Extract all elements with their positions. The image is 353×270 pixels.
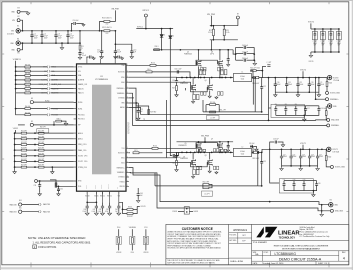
diode D2 [169, 29, 171, 36]
svg-text:VDD25: VDD25 [94, 196, 99, 198]
wire rs2opt tap [257, 152, 259, 186]
VOUT1 bus [259, 149, 326, 152]
svg-text:RUN1: RUN1 [78, 108, 82, 110]
svg-text:REV.: REV. [342, 252, 346, 254]
svg-text:L1_OPT: L1_OPT [210, 118, 215, 120]
svg-text:BG0: BG0 [121, 82, 124, 84]
svg-text:Q6: Q6 [183, 156, 185, 158]
resistor R47 cfg [15, 166, 22, 168]
svg-text:LINEAR: LINEAR [278, 230, 300, 236]
wire VSENSE0+ return [129, 88, 269, 120]
capacitor C11 1uF [100, 51, 103, 53]
ground sym config right [51, 167, 53, 170]
svg-text:100uF: 100uF [311, 84, 315, 86]
svg-text:2512: 2512 [105, 33, 108, 35]
capacitor C4 input [67, 31, 69, 35]
resistor R21 cfg [39, 132, 45, 134]
terminal VOUT1_SNS [330, 165, 333, 168]
svg-text:VSENSE0+: VSENSE0+ [330, 99, 339, 101]
ground sym C51 [227, 149, 230, 152]
svg-text:R15 0: R15 0 [151, 63, 155, 65]
svg-text:Fax: (408)434-0507: Fax: (408)434-0507 [300, 234, 314, 236]
terminal E3 GND [17, 10, 20, 13]
title block frame [166, 224, 349, 264]
svg-text:CUSTOMER NOTICE: CUSTOMER NOTICE [182, 227, 213, 231]
svg-text:VOUT0_CFG: VOUT0_CFG [78, 156, 88, 158]
svg-text:C11: C11 [97, 49, 100, 51]
svg-text:0.56uH: 0.56uH [240, 76, 244, 78]
svg-text:C16: C16 [172, 80, 175, 82]
resistor R49 ith [56, 185, 74, 187]
svg-text:C22: C22 [263, 86, 266, 88]
wire vinpwr stub2 [210, 16, 212, 26]
svg-text:SCALE = NONE: SCALE = NONE [230, 260, 244, 263]
capacitor C13 [115, 44, 131, 51]
svg-text:BOOST1: BOOST1 [118, 153, 124, 155]
svg-text:E15: E15 [19, 207, 22, 209]
svg-text:LTC3886IUKG: LTC3886IUKG [275, 252, 297, 256]
svg-text:R47 OPT: R47 OPT [21, 165, 27, 167]
banana jack E4 GND [16, 41, 20, 45]
svg-text:C11: C11 [288, 82, 291, 84]
svg-text:100uF: 100uF [288, 84, 292, 86]
svg-text:E16: E16 [330, 200, 333, 202]
wire ith0 row [37, 180, 73, 182]
banana jack GND1 [329, 203, 333, 207]
capacitor C61 0.1uF boost [177, 70, 179, 73]
VOUT0 bus [259, 77, 327, 79]
rail opt top [310, 23, 312, 29]
terminal WP circle [30, 123, 33, 126]
svg-text:C61 0.1uF: C61 0.1uF [174, 68, 181, 70]
svg-text:L2_OPT: L2_OPT [204, 193, 209, 195]
gate option pads Q2 [201, 92, 203, 96]
svg-text:R30 1: R30 1 [155, 46, 159, 48]
rail opt bottom [311, 51, 339, 53]
resistor R41 pgood1 [16, 109, 25, 115]
svg-text:R35 10k: R35 10k [25, 86, 31, 88]
wire BG1 gate [129, 162, 191, 164]
svg-text:C40: C40 [83, 209, 86, 211]
capacitor C42 0.1uF [102, 202, 104, 206]
ground sym opt bank [310, 52, 312, 54]
svg-text:FOR A OPTION.: FOR A OPTION. [38, 245, 57, 249]
svg-text:C42: C42 [99, 209, 102, 211]
svg-text:R26 OPT: R26 OPT [21, 142, 27, 144]
capacitor C41 0.1uF [95, 202, 97, 206]
svg-text:C31: C31 [34, 185, 37, 187]
svg-text:R48 OPT: R48 OPT [38, 165, 44, 167]
resistor R36 FAULT1B row [16, 92, 25, 94]
svg-text:R45 OPT: R45 OPT [21, 159, 27, 161]
capacitor C22 100uF [290, 149, 292, 156]
capacitor C25 100uF [317, 149, 319, 156]
capacitor C43 4.7uF [109, 202, 111, 206]
RS1_OPT network ch0 [203, 111, 255, 113]
svg-text:C9: C9 [320, 82, 322, 84]
svg-text:C44: C44 [115, 209, 118, 211]
svg-text:TECHNOLOGY APPLICATIONS ENGINE: TECHNOLOGY APPLICATIONS ENGINEERING FOR … [167, 247, 221, 250]
rail divider top [210, 25, 238, 27]
svg-text:VDD33: VDD33 [143, 252, 148, 254]
resistor R35 FAULT0B row [16, 88, 25, 90]
resistor R38 cfg [39, 155, 45, 157]
svg-text:E3: E3 [18, 8, 20, 10]
svg-text:VSENSE0-: VSENSE0- [331, 125, 340, 127]
ground sym C44 [117, 212, 121, 216]
ground sym out1 b [300, 166, 302, 167]
svg-text:VOUT1: VOUT1 [300, 143, 306, 145]
svg-text:C41: C41 [93, 209, 96, 211]
ground sym out0 a [274, 92, 276, 93]
svg-text:VTRIM_CFG: VTRIM_CFG [78, 167, 88, 169]
svg-text:VDD33: VDD33 [85, 196, 90, 198]
capacitor COUT3_OPT [330, 29, 332, 31]
svg-text:C6 2.2uF: C6 2.2uF [242, 45, 248, 47]
ground sym C43 [108, 212, 112, 216]
svg-text:VIN: VIN [117, 187, 119, 189]
capacitor C12 100uF [297, 78, 299, 84]
svg-text:FDMS86101: FDMS86101 [184, 53, 192, 55]
svg-text:RUN0: RUN0 [45, 100, 49, 102]
svg-text:4: 4 [343, 256, 345, 260]
svg-text:R46 OPT: R46 OPT [38, 159, 44, 161]
ground sym C40 [85, 212, 89, 216]
banana jack GND0 [327, 104, 331, 108]
svg-text:D2: D2 [172, 36, 174, 38]
U1 right pin stubs [126, 65, 129, 186]
resistor R101 gnd sns [325, 106, 327, 111]
svg-text:E7: E7 [237, 14, 239, 16]
gate option pads Q3 [218, 67, 220, 71]
svg-text:C32: C32 [60, 188, 63, 190]
resistor RS2_OPT row [155, 185, 203, 187]
svg-text:4.7uF: 4.7uF [58, 35, 62, 37]
svg-text:E14: E14 [19, 200, 22, 202]
ground sym C45 [136, 199, 140, 202]
resistor R27 cfg [39, 144, 45, 146]
capacitor C3 input [55, 31, 57, 35]
capacitor C50 vin ch0 [227, 50, 229, 59]
svg-text:BG1: BG1 [121, 162, 124, 164]
svg-text:R22: R22 [209, 30, 212, 32]
svg-text:R50_OPT 3.6k: R50_OPT 3.6k [250, 67, 260, 69]
svg-text:VIN_PWR: VIN_PWR [201, 135, 210, 137]
gate option pads Q1 [201, 67, 203, 71]
capacitor C16 330uF opt [295, 106, 297, 109]
svg-text:100uF: 100uF [319, 156, 323, 158]
capacitor C12 [114, 51, 117, 53]
svg-text:R34 10k: R34 10k [25, 82, 31, 84]
Linear Technology logo [256, 227, 277, 238]
svg-text:Q7: Q7 [211, 138, 213, 140]
part number block [252, 251, 349, 261]
capacitor C5 [79, 50, 81, 53]
svg-text:D1: D1 [163, 34, 165, 36]
ground sym Q2 [192, 99, 194, 102]
svg-text:E9: E9 [31, 121, 33, 123]
svg-text:VOUT0: VOUT0 [300, 69, 306, 71]
VIN rail ch1 [204, 137, 206, 142]
svg-text:C5: C5 [82, 53, 84, 55]
svg-text:C7 2.2uF: C7 2.2uF [242, 51, 248, 53]
svg-text:R43 0: R43 0 [57, 119, 61, 121]
capacitor C19 ith0 [137, 103, 139, 110]
input caps C6 C7 C8 2.2uF [235, 47, 237, 60]
wire divider down [114, 31, 116, 51]
resistor R23 [223, 26, 225, 29]
banana jack VOUT1 [327, 147, 331, 151]
svg-text:VOUT0: VOUT0 [308, 22, 314, 24]
svg-text:C17: C17 [307, 108, 310, 110]
capacitor C7 2.2uF [236, 53, 244, 55]
resistor R24 cfg [15, 138, 22, 140]
svg-text:E8: E8 [31, 98, 33, 100]
svg-text:SUPPLIED FOR USE WITH LINEAR T: SUPPLIED FOR USE WITH LINEAR TECHNOLOGY … [167, 261, 216, 264]
gate option pads Q6 [196, 166, 198, 169]
resistor R34 SHARE_CLK row [16, 83, 25, 85]
wire VOSNS0 stub [129, 97, 134, 99]
svg-text:VDD33: VDD33 [116, 252, 121, 254]
svg-text:PCB DES.: PCB DES. [229, 235, 237, 237]
resistor RS1 sense [253, 76, 259, 78]
svg-text:TP: TP [143, 119, 145, 121]
gate option pads Q8 [213, 166, 215, 169]
ground sym top B [121, 57, 124, 60]
svg-text:PG1: PG1 [144, 227, 147, 229]
svg-text:INTVCC: INTVCC [143, 10, 150, 12]
svg-text:1uF: 1uF [133, 51, 136, 53]
svg-text:INTVCC: INTVCC [107, 196, 112, 198]
ground sym C9 [82, 24, 85, 27]
svg-text:GND_SNS: GND_SNS [331, 120, 340, 122]
svg-text:R19 TBD: R19 TBD [150, 111, 156, 113]
capacitor C37 top A [87, 57, 89, 59]
svg-text:R38 OPT: R38 OPT [38, 153, 44, 155]
terminal VSENSE0- [327, 124, 330, 127]
capacitor C17 opt out [305, 106, 307, 109]
svg-text:R41 10k: R41 10k [25, 112, 31, 114]
svg-text:LTC3886IUKG: LTC3886IUKG [95, 79, 108, 81]
svg-text:SHEET 1 OF 1: SHEET 1 OF 1 [318, 263, 329, 265]
svg-text:VCC10: VCC10 [13, 59, 18, 61]
capacitor C27 330uF opt [283, 181, 285, 184]
ground sym ith0 [137, 115, 139, 117]
optional bulk bank ch0 box [271, 104, 304, 117]
capacitor C44 1uF [118, 202, 120, 206]
wire vin rail to input caps [233, 50, 236, 54]
wire BOOST0 [129, 71, 146, 73]
resistor R30 SYNC row [16, 66, 25, 68]
svg-text:E4: E4 [17, 38, 19, 40]
capacitor C29 330uF opt [303, 181, 305, 184]
svg-text:R16 0: R16 0 [153, 146, 157, 148]
svg-text:TG1: TG1 [121, 148, 124, 150]
capacitor C32 ith [58, 186, 60, 189]
snubber ch1 C R [176, 152, 178, 155]
ground sym Q8b [215, 171, 218, 174]
resistor R102 [325, 149, 327, 155]
wire opt bank feed [268, 78, 270, 121]
capacitor C45 1uF extvcc [137, 188, 139, 194]
ground sym opt bank ch1 [312, 191, 314, 194]
svg-text:R17: R17 [172, 88, 175, 90]
resistor R48 cfg [39, 166, 45, 168]
diode D1 [161, 29, 163, 35]
svg-text:L1: L1 [242, 72, 244, 74]
svg-text:R21 OPT: R21 OPT [38, 131, 44, 133]
ground sym input bus [61, 43, 63, 46]
ground sym Q4b [215, 96, 218, 99]
svg-text:FREQ_CFG: FREQ_CFG [78, 144, 87, 146]
wire VSENSE0- return [129, 93, 327, 125]
capacitor C8 2.2uF [236, 59, 244, 61]
capacitor C30 10uF [316, 181, 318, 184]
svg-text:VIN_PWR: VIN_PWR [207, 14, 216, 16]
svg-text:R36 10k: R36 10k [25, 90, 31, 92]
ground sym top A [92, 57, 95, 60]
svg-text:R24 OPT: R24 OPT [21, 136, 27, 138]
gate option pads Q4 [218, 92, 220, 96]
svg-text:RS2_OPT: RS2_OPT [203, 182, 210, 184]
svg-text:IC NO.: IC NO. [264, 252, 270, 254]
svg-text:R37 OPT: R37 OPT [21, 153, 27, 155]
option pads Q7 [221, 149, 224, 152]
svg-text:100uF: 100uF [277, 84, 281, 86]
svg-text:ITH0: ITH0 [78, 181, 81, 183]
wire VSENSE1- return [129, 172, 265, 208]
ground sym C32 [57, 193, 61, 196]
svg-text:R28 OPT: R28 OPT [21, 148, 27, 150]
ground sym out0 b [297, 92, 299, 93]
svg-text:C43: C43 [106, 209, 109, 211]
svg-text:R23: R23 [226, 30, 229, 32]
svg-text:VSENSE1-: VSENSE1- [117, 172, 125, 174]
svg-text:VOUT0: VOUT0 [141, 206, 146, 208]
svg-text:E1: E1 [17, 26, 19, 28]
svg-text:PGOOD0: PGOOD0 [78, 115, 85, 117]
wire iavg route [129, 107, 269, 114]
svg-text:Toroid: Toroid [241, 79, 245, 81]
capacitor C23 100uF [300, 149, 302, 156]
svg-text:VSENSE0-: VSENSE0- [117, 93, 125, 95]
option pads Q5 [199, 149, 202, 152]
ground sym input caps ch0 [253, 60, 256, 62]
svg-text:INTVCC: INTVCC [101, 184, 103, 189]
svg-text:1uF: 1uF [140, 195, 143, 197]
svg-text:R58 OPT: R58 OPT [127, 216, 133, 218]
capacitor C1 input [31, 31, 33, 35]
svg-text:NC: NC [128, 133, 130, 135]
wire D2 to boost1 [169, 38, 171, 152]
wire L1 out [251, 77, 254, 79]
banana jack E1 VIN [16, 29, 20, 33]
svg-text:51.2k: 51.2k [226, 32, 230, 34]
capacitor C15 330uF opt [285, 106, 287, 109]
svg-text:R11 2.49k 1%: R11 2.49k 1% [102, 27, 112, 29]
svg-text:FDMS86101: FDMS86101 [178, 145, 186, 147]
svg-text:C45: C45 [140, 193, 143, 195]
ch0 output gnd rail [275, 91, 319, 93]
svg-text:Thursday, June 02, 2016: Thursday, June 02, 2016 [262, 263, 283, 265]
ground sym config bus [14, 167, 16, 170]
svg-text:R29 OPT: R29 OPT [38, 148, 44, 150]
capacitor C18 10uF [318, 106, 320, 109]
ground sym C50 [227, 63, 230, 66]
svg-text:Q3: Q3 [211, 52, 213, 54]
svg-text:SKT: SKT [242, 235, 245, 237]
svg-text:R102: R102 [328, 156, 332, 158]
svg-text:R31 10k: R31 10k [25, 69, 31, 71]
svg-text:VOUT0_SNS: VOUT0_SNS [330, 93, 341, 95]
capacitor COUT4_OPT [338, 29, 340, 31]
capacitor C40 2.2uF [86, 202, 88, 206]
capacitor C21 100uF [281, 149, 283, 156]
ITH0 compensation [129, 102, 138, 104]
wire vsense0+ tap [316, 78, 326, 100]
svg-text:PG0: PG0 [117, 227, 120, 229]
option pads Q1 [199, 70, 202, 75]
svg-text:TG0: TG0 [121, 65, 124, 67]
resistor R19 ith0 [135, 103, 137, 106]
svg-text:C4: C4 [70, 33, 72, 35]
svg-text:R6 0: R6 0 [147, 69, 150, 71]
svg-text:C3: C3 [58, 33, 60, 35]
svg-text:VSENSE0+: VSENSE0+ [116, 88, 124, 90]
wire D1 to boost0 [161, 37, 163, 50]
capacitor C2 input [41, 31, 43, 35]
wire opt bank1 feed [270, 149, 280, 183]
svg-text:0.1uF: 0.1uF [92, 211, 96, 213]
svg-text:C25: C25 [319, 154, 322, 156]
svg-text:HIGH VOLTAGE DUAL STEP-DOWN DC: HIGH VOLTAGE DUAL STEP-DOWN DC/DC CONVER… [274, 245, 329, 248]
svg-text:VDD25: VDD25 [95, 185, 97, 189]
resistor R42 wp row [18, 124, 25, 126]
capacitor C62 0.1uF boost1 [166, 151, 190, 153]
resistor R43 0 [53, 121, 55, 125]
svg-text:NOTE: UNLESS OTHERWISE SPECIFI: NOTE: UNLESS OTHERWISE SPECIFIED [28, 236, 86, 240]
svg-text:VDD33: VDD33 [120, 186, 125, 188]
ground sym opt bank ch0 [303, 115, 305, 118]
svg-text:C23: C23 [302, 154, 305, 156]
capacitor C22 0.1uF ch0 sense filter [261, 78, 263, 87]
resistor box R44 OPT [15, 130, 17, 133]
resistor R32 SDA row [16, 75, 25, 77]
svg-text:C12: C12 [299, 82, 302, 84]
svg-text:1: 1 [82, 48, 83, 50]
terminal VOUT0_SNS [326, 91, 329, 94]
svg-text:C24: C24 [311, 154, 314, 156]
svg-text:R56 0: R56 0 [128, 207, 132, 209]
svg-text:C26 1uF: C26 1uF [273, 139, 279, 141]
svg-text:1uF: 1uF [115, 211, 118, 213]
terminal VSENSE0+ [326, 98, 329, 101]
banana jack J VOUT0 [327, 75, 331, 79]
resistor R37 cfg [15, 155, 22, 157]
config bus left [14, 133, 16, 167]
svg-text:C22: C22 [293, 154, 296, 156]
left pullup bus [15, 61, 17, 93]
svg-text:C13: C13 [311, 82, 314, 84]
resistor R22 [212, 26, 214, 29]
ground sym C5 [78, 56, 82, 59]
svg-text:C_OPT: C_OPT [267, 62, 272, 64]
svg-text:R51 10k: R51 10k [210, 102, 216, 104]
svg-text:C30: C30 [318, 183, 321, 185]
resistor R58 OPT [127, 213, 133, 215]
ground sym Q4 [209, 93, 211, 96]
terminal GND1_SNS [330, 209, 333, 212]
